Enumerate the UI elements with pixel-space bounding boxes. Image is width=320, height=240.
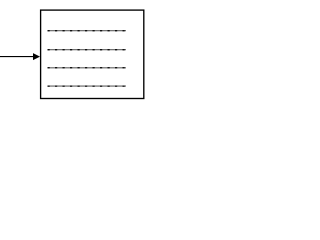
wire <box>0 56 34 58</box>
box <box>41 10 144 98</box>
arrowhead <box>33 53 40 60</box>
dashed line 1 <box>48 30 127 32</box>
dashed line 3 <box>48 67 127 69</box>
dashed line 2 <box>48 49 127 51</box>
dashed line 4 <box>48 85 127 87</box>
